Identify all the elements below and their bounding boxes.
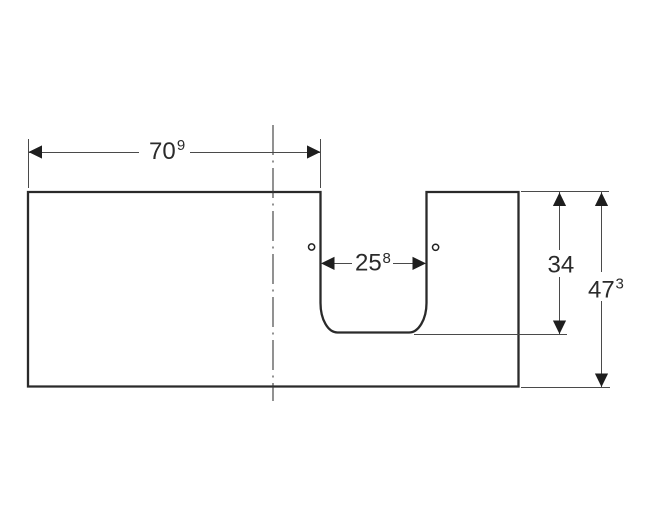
svg-text:8: 8 — [383, 250, 391, 267]
extension line from cutout bottom for 34 — [414, 334, 567, 336]
dimension line 25.8 — [321, 263, 352, 265]
dimension line 34 — [559, 192, 561, 250]
arrow left of 70.9 — [29, 145, 43, 158]
countertop outline with U-shaped cutout — [28, 192, 519, 387]
arrow bottom of 34 — [553, 321, 566, 335]
dimension line 70.9 — [29, 152, 140, 154]
hole left — [309, 244, 315, 250]
centerline (dash-dot) — [272, 125, 274, 401]
arrow bottom of 47.3 — [595, 374, 608, 388]
svg-text:3: 3 — [616, 276, 624, 293]
extension line top right (shared by 34 and 47.3) — [521, 191, 609, 193]
svg-text:70: 70 — [149, 138, 176, 165]
svg-text:47: 47 — [588, 277, 615, 304]
arrow top of 47.3 — [595, 193, 608, 207]
arrow right of 70.9 — [307, 145, 321, 158]
dimension line 47.3 — [601, 192, 603, 272]
extension line right for width dimension — [320, 139, 322, 188]
arrow right of 25.8 — [413, 257, 427, 270]
svg-text:25: 25 — [355, 250, 382, 277]
arrow left of 25.8 — [321, 257, 335, 270]
extension line left for width dimension — [28, 139, 30, 188]
extension line bottom right for 47.3 — [521, 387, 610, 389]
hole right — [433, 244, 439, 250]
arrow top of 34 — [553, 193, 566, 207]
svg-text:34: 34 — [548, 252, 575, 279]
svg-text:9: 9 — [177, 137, 185, 154]
